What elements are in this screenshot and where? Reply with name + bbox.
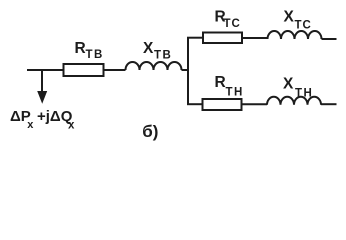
svg-text:ТН: ТН — [295, 87, 313, 99]
node: input tap junction — [41, 69, 43, 71]
label X_TB — [143, 40, 172, 62]
wire: bus to R_TC — [187, 37, 203, 39]
label X_TH — [283, 76, 313, 100]
label R_TC — [215, 8, 241, 30]
svg-text:R: R — [215, 74, 226, 91]
wire X_TB to split node — [182, 69, 189, 71]
wire: X_TC output lead — [322, 38, 337, 40]
svg-text:х: х — [27, 119, 34, 131]
resistor R_TC (box) — [203, 33, 242, 44]
wire R_TC to X_TC — [243, 37, 268, 39]
wire: input lead — [27, 69, 64, 71]
svg-text:X: X — [284, 9, 295, 26]
wire: X_TH output lead — [321, 103, 337, 105]
svg-text:ТС: ТС — [224, 18, 241, 30]
svg-text:X: X — [143, 40, 154, 57]
inductor X_TC (coil) — [268, 31, 322, 39]
svg-text:ТВ: ТВ — [154, 50, 172, 62]
svg-text:х: х — [68, 120, 75, 132]
inductor X_TH (coil) — [267, 97, 321, 105]
svg-text:R: R — [75, 40, 86, 57]
svg-text:ТН: ТН — [226, 86, 244, 98]
label ΔPх+jΔQх — [10, 108, 75, 132]
label R_TB — [75, 40, 104, 61]
inductor X_TB (coil) — [126, 62, 182, 70]
wire R_TB to X_TB — [105, 69, 126, 71]
svg-text:ТВ: ТВ — [86, 49, 104, 61]
wire R_TH to X_TH — [243, 103, 268, 105]
label X_TC — [284, 9, 312, 32]
svg-text:б): б) — [142, 122, 158, 141]
svg-text:X: X — [283, 76, 294, 93]
wire: bus to R_TH — [187, 103, 203, 105]
resistor R_TH (box) — [203, 99, 242, 110]
resistor R_TB (box) — [64, 64, 104, 76]
svg-text:ТС: ТС — [295, 19, 312, 31]
arrow: load flow down — [37, 70, 47, 104]
wire: split bus (vertical) — [187, 38, 189, 105]
label R_TH — [215, 74, 244, 98]
